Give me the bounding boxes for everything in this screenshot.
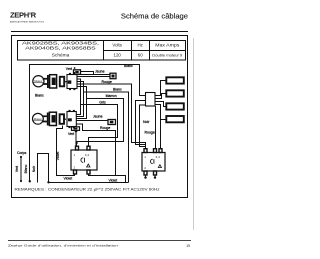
svg-text:Hz: Hz <box>138 42 143 47</box>
svg-text:19: 19 <box>186 244 190 248</box>
svg-text:Marron: Marron <box>106 94 117 98</box>
svg-text:Jaune: Jaune <box>95 70 105 74</box>
svg-text:Noir: Noir <box>32 165 36 172</box>
svg-text:1: 1 <box>74 153 76 157</box>
svg-text:Noir: Noir <box>143 120 150 124</box>
svg-text:2: 2 <box>74 165 76 169</box>
svg-text:Schéma de câblage: Schéma de câblage <box>121 11 188 20</box>
svg-text:Zephyr Guide d’utilisation, d’: Zephyr Guide d’utilisation, d’entretien … <box>8 244 118 248</box>
svg-text:Blanc: Blanc <box>35 93 44 97</box>
svg-text:3,4: 3,4 <box>156 155 161 159</box>
svg-text:Rouge: Rouge <box>102 80 112 84</box>
svg-text:3,4: 3,4 <box>85 153 90 157</box>
svg-text:Moteur: Moteur <box>34 117 42 121</box>
svg-text:REMARQUES : CONDENSATEUR 22 μF: REMARQUES : CONDENSATEUR 22 μF*2 250VAC … <box>15 188 160 192</box>
svg-text:Violet: Violet <box>64 177 73 181</box>
svg-text:Blanc: Blanc <box>113 87 122 91</box>
svg-text:60: 60 <box>138 53 143 58</box>
svg-text:Vert: Vert <box>68 132 74 136</box>
svg-text:Double moteur 9: Double moteur 9 <box>152 53 182 57</box>
svg-text:Schéma: Schéma <box>52 53 70 58</box>
svg-text:AMERICA’S FINEST RANGE HOODS: AMERICA’S FINEST RANGE HOODS <box>10 20 45 23</box>
svg-text:2: 2 <box>144 166 146 170</box>
svg-text:1: 1 <box>144 155 146 159</box>
svg-text:Vert: Vert <box>15 166 19 172</box>
svg-text:Violet: Violet <box>56 152 60 161</box>
svg-text:Rouge: Rouge <box>100 126 110 130</box>
svg-text:120: 120 <box>114 53 122 58</box>
svg-text:Max Amps: Max Amps <box>155 42 180 47</box>
svg-text:ZEPH’R: ZEPH’R <box>10 10 37 19</box>
svg-text:Blanc: Blanc <box>24 164 28 173</box>
svg-text:Corps: Corps <box>17 151 27 155</box>
svg-text:Violet: Violet <box>109 179 118 183</box>
svg-text:Blanc: Blanc <box>124 64 133 68</box>
svg-text:Vert: Vert <box>66 67 72 71</box>
svg-text:AK9040BS, AK9858BS: AK9040BS, AK9858BS <box>25 45 96 50</box>
svg-text:Rouge: Rouge <box>145 130 155 134</box>
svg-text:Jaune: Jaune <box>93 114 103 118</box>
svg-text:Moteur: Moteur <box>34 79 42 83</box>
svg-text:Volts: Volts <box>112 42 122 47</box>
svg-text:Gris: Gris <box>99 100 106 104</box>
